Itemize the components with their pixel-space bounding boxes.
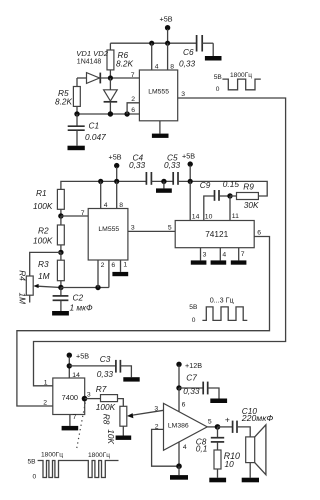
- svg-text:4: 4: [222, 251, 226, 258]
- wire pin 2: [98, 260, 105, 288]
- svg-text:220мкФ: 220мкФ: [241, 413, 274, 423]
- dotted annotation line: [77, 403, 86, 450]
- ground R10: [209, 478, 226, 483]
- wire pin 4: [152, 43, 159, 70]
- node R3/C2: [58, 285, 63, 290]
- wire supply rail top: [110, 42, 196, 44]
- wire to R4: [30, 252, 61, 276]
- wire pin 3 output to 7400 pin 1: [34, 91, 286, 386]
- wire pin 6 output to 7400 pin 2: [17, 229, 270, 406]
- waveform 0..3Hz: [189, 295, 247, 324]
- svg-text:6: 6: [182, 401, 186, 408]
- svg-text:0,33: 0,33: [183, 386, 200, 396]
- capacitor C3: [69, 354, 131, 379]
- wiper arrow R4: [33, 284, 61, 288]
- wire pin 3 gnd: [201, 248, 207, 261]
- svg-text:LM386: LM386: [168, 422, 189, 429]
- node pin8: [114, 179, 119, 184]
- wire pin 7 gnd: [62, 415, 79, 431]
- node pin4: [98, 179, 103, 184]
- svg-text:C7: C7: [186, 372, 197, 382]
- node mid ground: [161, 179, 166, 184]
- power +5V top: [160, 15, 173, 44]
- ground C1: [68, 146, 85, 151]
- svg-text:0.15: 0.15: [223, 179, 240, 189]
- svg-text:2: 2: [101, 262, 105, 269]
- diode VD2: [104, 78, 118, 114]
- diode VD1: [76, 49, 139, 84]
- wire pin 2: [127, 96, 139, 114]
- IC 74121 one-shot: [175, 221, 254, 248]
- svg-text:0: 0: [192, 317, 196, 324]
- capacitor C9: [200, 179, 240, 221]
- resistor R5: [55, 78, 80, 114]
- wire rail mid: [151, 180, 173, 182]
- resistor R6: [107, 43, 134, 78]
- node VD1/R6 junction: [108, 75, 113, 80]
- svg-text:3: 3: [154, 406, 158, 413]
- svg-text:6: 6: [111, 262, 115, 269]
- ground C6: [205, 56, 222, 61]
- svg-text:7400: 7400: [62, 393, 78, 402]
- waveform 1800Hz top: [214, 72, 261, 93]
- svg-text:1M: 1M: [18, 293, 28, 305]
- capacitor C4: [129, 152, 151, 185]
- svg-text:4: 4: [104, 202, 108, 209]
- capacitor C2: [53, 288, 93, 313]
- svg-text:8: 8: [119, 202, 123, 209]
- wire pin 2 loop: [152, 423, 179, 466]
- node pin2 branch: [124, 111, 129, 116]
- svg-text:5В: 5В: [189, 304, 198, 311]
- svg-text:2: 2: [131, 96, 135, 103]
- ground C4/C5: [156, 181, 172, 192]
- node C9/R9 pin11: [227, 193, 232, 198]
- resistor R10: [214, 450, 240, 478]
- resistor R9: [230, 181, 259, 210]
- ground 74121 pin4: [211, 260, 227, 264]
- wire pin 7 gnd: [239, 248, 245, 261]
- svg-text:C9: C9: [200, 180, 211, 190]
- wire trigger bottom: [77, 113, 139, 115]
- svg-text:LM555: LM555: [148, 89, 169, 96]
- capacitor C5: [164, 152, 181, 185]
- svg-text:0,1: 0,1: [196, 443, 208, 453]
- svg-text:+12В: +12В: [185, 361, 202, 370]
- svg-text:30K: 30K: [244, 200, 259, 210]
- svg-text:6: 6: [131, 107, 135, 114]
- svg-text:R1: R1: [36, 188, 47, 198]
- svg-text:74121: 74121: [205, 229, 228, 239]
- wire pin 1 + ground: [112, 260, 128, 276]
- svg-text:100K: 100K: [33, 236, 53, 246]
- svg-text:5В: 5В: [28, 458, 37, 465]
- potentiometer R8: [102, 406, 127, 444]
- node R5/C1: [74, 111, 79, 116]
- wire pin 6: [109, 260, 116, 288]
- svg-text:+5В: +5В: [160, 15, 173, 24]
- svg-text:R7: R7: [96, 384, 107, 394]
- svg-text:C2: C2: [73, 292, 84, 302]
- svg-text:3: 3: [131, 225, 135, 232]
- ground speaker: [242, 478, 259, 483]
- svg-text:11: 11: [232, 213, 239, 220]
- wire pin 7: [61, 210, 88, 217]
- resistor R3: [38, 252, 64, 287]
- power +5V right: [182, 151, 195, 181]
- wire pin3 to R7: [85, 398, 101, 400]
- svg-text:8.2K: 8.2K: [116, 59, 134, 69]
- resistor R1: [33, 188, 64, 216]
- ground C7: [210, 399, 227, 404]
- svg-text:0,33: 0,33: [129, 160, 146, 170]
- ground C2: [52, 311, 69, 316]
- svg-text:+: +: [225, 414, 230, 424]
- node pin8 junction: [165, 41, 170, 46]
- svg-text:3: 3: [87, 391, 91, 398]
- svg-text:7: 7: [73, 414, 77, 421]
- node pin5: [215, 424, 221, 430]
- wire pin 11: [230, 196, 239, 221]
- ground 74121 pin3: [191, 260, 207, 264]
- svg-text:100K: 100K: [33, 201, 53, 211]
- svg-text:4: 4: [183, 444, 187, 451]
- svg-text:1M: 1M: [38, 271, 50, 281]
- svg-text:0,33: 0,33: [164, 160, 181, 170]
- svg-text:R2: R2: [38, 226, 49, 236]
- svg-text:LM555: LM555: [98, 226, 119, 233]
- svg-text:6: 6: [257, 229, 261, 236]
- ground LM555 #1: [152, 121, 169, 138]
- svg-text:VD1 VD2: VD1 VD2: [76, 49, 108, 58]
- wire pin 6 LM386: [179, 388, 186, 412]
- svg-text:10K: 10K: [106, 429, 116, 444]
- svg-text:5: 5: [168, 225, 172, 232]
- svg-text:5В: 5В: [214, 74, 223, 81]
- op-amp U2 LM555 timer #2: [88, 209, 128, 261]
- svg-text:14: 14: [192, 213, 200, 220]
- svg-text:3: 3: [181, 91, 185, 98]
- svg-text:3: 3: [203, 251, 207, 258]
- wire pin 4: [179, 442, 187, 467]
- wire pin 3 to 74121 pin 5: [128, 225, 175, 232]
- svg-text:1800Гц: 1800Гц: [41, 451, 63, 458]
- wire supply rail A: [61, 181, 146, 189]
- svg-text:10: 10: [225, 459, 235, 469]
- wiper arrow R8 to LM386 pin3: [127, 406, 164, 419]
- wire R7 to R8: [118, 399, 124, 407]
- wire threshold bottom: [61, 287, 109, 289]
- svg-text:1N4148: 1N4148: [77, 59, 102, 66]
- svg-text:2: 2: [155, 423, 159, 430]
- capacitor C7: [179, 372, 219, 398]
- ground LM386: [170, 466, 188, 480]
- svg-text:8: 8: [170, 63, 174, 70]
- wire pin 4: [101, 181, 108, 208]
- svg-text:100K: 100K: [96, 402, 116, 412]
- wire supply rail B: [178, 181, 267, 196]
- capacitor C6: [179, 35, 213, 69]
- svg-text:R4: R4: [18, 270, 28, 281]
- svg-text:R8: R8: [102, 414, 112, 425]
- svg-text:7: 7: [241, 251, 245, 258]
- svg-text:2: 2: [43, 399, 47, 406]
- potentiometer R4: [18, 270, 34, 304]
- svg-text:1 мкФ: 1 мкФ: [70, 303, 94, 313]
- svg-text:0.047: 0.047: [85, 132, 106, 142]
- node pin14 7400: [67, 363, 72, 368]
- svg-text:+5В: +5В: [109, 153, 122, 162]
- svg-text:1800Гц: 1800Гц: [230, 72, 252, 79]
- svg-text:R9: R9: [243, 181, 254, 191]
- svg-text:R3: R3: [38, 259, 49, 269]
- node pin 3 7400: [82, 396, 88, 402]
- resistor R2: [33, 216, 64, 252]
- capacitor C8: [196, 427, 224, 453]
- svg-text:10: 10: [205, 214, 213, 221]
- power +12V: [176, 361, 202, 388]
- wire pin 5: [207, 418, 217, 427]
- svg-text:C1: C1: [89, 120, 100, 130]
- wire pin 4 gnd: [220, 248, 226, 261]
- svg-text:0,33: 0,33: [97, 369, 114, 379]
- wire pin 8: [117, 181, 124, 208]
- svg-text:1800Гц: 1800Гц: [88, 452, 110, 459]
- svg-text:7: 7: [81, 210, 85, 217]
- IC 7400 NAND: [43, 372, 91, 421]
- node R1/R2 pin7: [58, 213, 63, 218]
- svg-text:0...3 Гц: 0...3 Гц: [210, 295, 234, 304]
- node pin4/pin2 ground: [176, 463, 182, 469]
- speaker: [246, 425, 266, 478]
- svg-text:+5В: +5В: [182, 151, 195, 160]
- power +5V 7400: [67, 351, 90, 378]
- wire pin 8: [168, 43, 175, 70]
- svg-text:7: 7: [131, 72, 135, 79]
- op-amp U4 LM386: [164, 403, 208, 450]
- node VD2 bottom: [108, 111, 113, 116]
- resistor R7: [96, 384, 118, 412]
- svg-text:5: 5: [208, 418, 212, 425]
- power +5V left: [109, 153, 122, 182]
- node pin2: [95, 285, 100, 290]
- ground C3: [123, 377, 139, 381]
- svg-text:1: 1: [44, 379, 48, 386]
- svg-text:1: 1: [123, 262, 127, 269]
- op-amp U1 LM555 timer #1: [139, 70, 177, 121]
- svg-text:4: 4: [155, 63, 159, 70]
- ground R8: [116, 436, 132, 440]
- svg-text:+5В: +5В: [76, 351, 89, 360]
- svg-text:0,33: 0,33: [179, 59, 196, 69]
- node pin14: [188, 179, 193, 184]
- svg-text:C6: C6: [183, 47, 194, 57]
- capacitor C1: [68, 114, 106, 146]
- waveform 1800Hz bursts bottom: [28, 451, 119, 480]
- node C7 junction: [176, 385, 181, 390]
- ground 74121 pin7: [231, 260, 247, 264]
- svg-text:8.2K: 8.2K: [55, 97, 73, 107]
- svg-text:C3: C3: [100, 354, 111, 364]
- node R2/R3: [58, 250, 63, 255]
- wire pin 14: [190, 181, 199, 220]
- node pin4 junction: [149, 41, 154, 46]
- svg-text:0: 0: [33, 473, 37, 480]
- svg-text:0: 0: [216, 86, 220, 93]
- svg-text:14: 14: [72, 372, 80, 379]
- capacitor C10: [218, 406, 274, 437]
